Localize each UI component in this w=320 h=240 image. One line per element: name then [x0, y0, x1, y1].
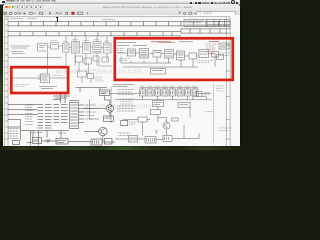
label under block [39, 87, 57, 89]
document area [3, 15, 240, 146]
dashed section divider [212, 84, 214, 142]
IC U7 [103, 43, 111, 53]
label above U11 [69, 100, 79, 102]
transistor Q11 [106, 105, 113, 112]
system control note [215, 86, 224, 91]
bottom resistor R12 box [12, 141, 19, 145]
bottom mid dashes [118, 133, 130, 136]
desktop wallpaper bottom edge [0, 146, 240, 150]
highlight box 2 (right, trigger logic) [114, 39, 232, 81]
gate U26 [189, 53, 197, 59]
gnd symbol GND1 [45, 140, 50, 143]
wire bus into components [8, 46, 104, 58]
filter block A27 [150, 110, 160, 115]
bottom row dip U43 [163, 136, 172, 142]
pin list column B (resistor pack RP2) [53, 105, 67, 123]
bottom small box A29 [104, 139, 112, 145]
desktop wallpaper left edge [0, 4, 3, 150]
wires from box1 area down [53, 88, 107, 103]
reg block A26 upper [152, 101, 163, 107]
bottom left vertical wires [30, 131, 38, 146]
zone tick marks left strip [4, 19, 7, 139]
sheet header text [10, 18, 115, 21]
driver U25 [176, 51, 184, 60]
dip labels [140, 86, 197, 88]
flipflop U24 [164, 50, 173, 59]
note text right [197, 61, 213, 63]
bottom interconnects [115, 108, 199, 140]
feed wire to dips [110, 88, 211, 94]
top bus ladder 1 [8, 22, 230, 26]
corner note text [218, 128, 232, 131]
pin net labels right of U11 [85, 105, 95, 119]
svg-text:p-Schematics.com: p-Schematics.com [84, 104, 152, 111]
title block text [185, 21, 205, 26]
section label [53, 96, 70, 98]
bottom dip U13 [56, 139, 68, 145]
dip U35 [169, 89, 175, 96]
drops from bus into ICs [66, 36, 107, 43]
dotted note text [14, 85, 29, 87]
logic gate U9 [84, 58, 92, 64]
net label row [117, 41, 193, 44]
comparator A3 [77, 71, 86, 77]
upper annotation rows [117, 90, 135, 95]
reg block A23 [138, 117, 147, 122]
application window [3, 4, 240, 146]
net labels [93, 77, 104, 81]
right small box A28 [216, 55, 223, 60]
emitter resistor R11 [103, 116, 113, 121]
label text block left [10, 46, 30, 54]
component labels row [51, 40, 109, 41]
IC U4 with pin hatch [71, 42, 79, 54]
sheet top border [4, 16, 229, 18]
label text [113, 85, 134, 87]
merge ctl block A5 [40, 74, 49, 83]
title block table [184, 20, 230, 27]
A25 lower wire [193, 96, 207, 100]
traffic light close [5, 6, 7, 8]
relay K1 box [37, 44, 47, 52]
small cap C21 [211, 52, 218, 58]
IC U5 with pin hatch [82, 43, 90, 54]
bottom rail wires [26, 141, 115, 143]
bottom row dip U41 [128, 136, 137, 143]
dip U38 [192, 89, 198, 96]
titlebar toolbar buttons [15, 5, 43, 9]
vertical feed wire left of divider [89, 87, 111, 123]
wire drops to lower section [66, 52, 107, 66]
bias resistor R21 [171, 118, 178, 121]
bottom area labels [31, 132, 67, 135]
latch U21 [127, 49, 135, 56]
right small box A25 [196, 92, 202, 97]
counter U22 [139, 49, 148, 59]
title bar [3, 4, 240, 10]
comparator A4 [87, 74, 93, 79]
second toolbar row [3, 10, 240, 16]
dip U37 [184, 89, 190, 96]
dip U34 [162, 89, 168, 96]
bias network box above Q11 [99, 90, 109, 96]
footnote text [205, 111, 213, 113]
pins left of block [38, 76, 41, 79]
delay block A21 [150, 69, 165, 75]
wire block to box edge [49, 77, 67, 79]
pins right of U11 [78, 105, 84, 123]
gate U15 [102, 57, 109, 62]
dip U36 [177, 89, 183, 96]
sheet right border (double) [226, 17, 230, 146]
wires mid cluster [79, 61, 112, 83]
bottom left label column [8, 129, 19, 139]
sheet left zone border [4, 15, 7, 146]
right label column [206, 44, 216, 48]
delay spec block A22 [178, 103, 190, 108]
gnd symbol lower right [155, 131, 158, 133]
mid cluster between highlight boxes [75, 56, 112, 83]
logic gate U10 [93, 56, 99, 61]
menu bar [0, 0, 240, 5]
traffic light zoom [12, 6, 14, 8]
long rail under dips [115, 99, 212, 101]
wire rail bottom [20, 131, 69, 139]
gate U2 box [50, 43, 58, 50]
pin list column A (resistor pack RP1) [37, 105, 51, 129]
transistor Q21 [162, 122, 169, 129]
IC U6 hatch [93, 42, 101, 54]
search field [196, 11, 236, 17]
collector feed wires [84, 96, 110, 142]
red annotation tool icon [71, 12, 74, 15]
vertical wire entering box top [46, 52, 48, 74]
bottom dip U12 [32, 138, 41, 144]
buffer U3 box [62, 43, 69, 52]
net name labels column [25, 105, 33, 125]
feeder wires from left border [8, 105, 38, 141]
right border zone ticks [226, 45, 230, 139]
mid annotation dashes [119, 59, 131, 61]
interconnect wires [117, 53, 199, 56]
Q11 value notes [117, 106, 137, 111]
main IC U11 tall [69, 103, 78, 129]
traffic light minimize [8, 6, 10, 8]
ram U27 [199, 50, 209, 58]
dip U33 [154, 89, 160, 96]
dip U32 [147, 89, 153, 96]
bottom row dip U42 [145, 137, 156, 144]
reg label dashes [120, 99, 134, 104]
mouse text cursor [56, 17, 59, 22]
A25 value labels [203, 93, 211, 95]
logic gate U8 [75, 56, 82, 62]
top bus ladder 2 [8, 29, 230, 36]
wires lower right [123, 107, 167, 136]
bottom dip U14 [91, 139, 102, 145]
dip U31 [139, 89, 145, 96]
highlight box 1 (left, merge control) [11, 68, 68, 94]
aux box below notes [120, 121, 127, 126]
transistor Q12 [98, 128, 106, 136]
wire from left edge [12, 77, 41, 79]
gate U23 [153, 51, 161, 58]
window title [103, 5, 193, 9]
left label stack [115, 49, 124, 53]
id block right [219, 43, 229, 49]
red annotation text rows [151, 41, 219, 44]
wire label on output [52, 75, 62, 77]
